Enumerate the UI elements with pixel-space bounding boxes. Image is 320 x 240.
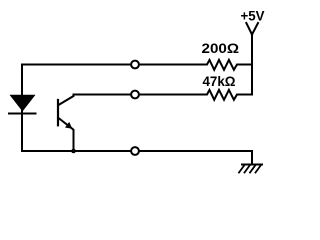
svg-text:+5V: +5V (241, 8, 266, 24)
svg-text:200Ω: 200Ω (202, 40, 240, 56)
svg-text:47kΩ: 47kΩ (203, 73, 236, 89)
